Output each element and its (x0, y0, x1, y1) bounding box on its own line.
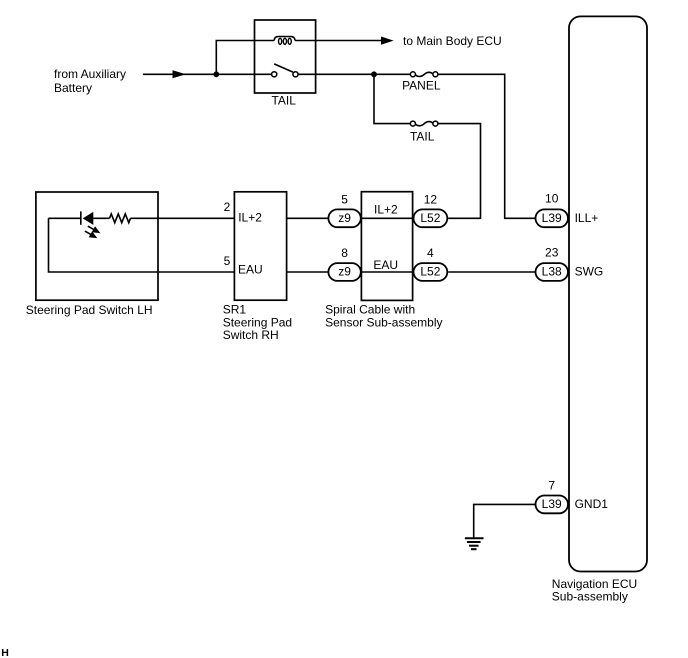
svg-text:from Auxiliary: from Auxiliary (54, 67, 126, 81)
svg-text:EAU: EAU (373, 258, 398, 272)
svg-text:5: 5 (341, 193, 348, 207)
svg-text:TAIL: TAIL (271, 94, 296, 108)
svg-text:SWG: SWG (575, 265, 604, 279)
svg-text:8: 8 (341, 246, 348, 260)
svg-text:7: 7 (548, 479, 555, 493)
svg-text:23: 23 (545, 246, 559, 260)
svg-text:TAIL: TAIL (410, 129, 435, 143)
svg-text:ILL+: ILL+ (575, 211, 599, 225)
svg-text:Switch RH: Switch RH (223, 328, 279, 342)
svg-text:4: 4 (427, 246, 434, 260)
svg-text:L39: L39 (542, 497, 562, 511)
svg-text:GND1: GND1 (575, 497, 609, 511)
svg-text:z9: z9 (338, 211, 351, 225)
svg-text:to Main Body ECU: to Main Body ECU (403, 34, 502, 48)
svg-text:10: 10 (545, 191, 559, 205)
svg-text:EAU: EAU (238, 263, 263, 277)
svg-text:H: H (1, 647, 9, 658)
svg-text:Sensor Sub-assembly: Sensor Sub-assembly (325, 316, 442, 330)
svg-text:IL+2: IL+2 (238, 211, 262, 225)
svg-text:Sub-assembly: Sub-assembly (552, 590, 628, 604)
svg-text:L52: L52 (420, 265, 440, 279)
svg-text:12: 12 (424, 193, 438, 207)
svg-text:L52: L52 (420, 211, 440, 225)
svg-text:z9: z9 (338, 265, 351, 279)
svg-text:5: 5 (224, 254, 231, 268)
svg-text:Steering Pad Switch LH: Steering Pad Switch LH (26, 303, 153, 317)
svg-text:L39: L39 (542, 211, 562, 225)
svg-text:Battery: Battery (54, 81, 92, 95)
svg-text:2: 2 (224, 200, 231, 214)
svg-text:L38: L38 (542, 265, 562, 279)
svg-text:IL+2: IL+2 (374, 203, 398, 217)
svg-text:PANEL: PANEL (402, 79, 441, 93)
